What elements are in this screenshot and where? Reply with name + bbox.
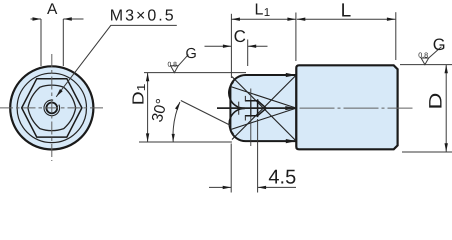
- dim D label: [426, 93, 446, 110]
- interface arrow middle: [285, 106, 296, 110]
- shallow taper line lower: [230, 108, 296, 130]
- svg-text:0.8: 0.8: [168, 62, 178, 69]
- hex chamfer arcs side view: [229, 82, 245, 134]
- svg-text:M3×0.5: M3×0.5: [110, 7, 176, 24]
- dim D1 top extension line: [144, 72, 246, 74]
- surface finish symbol right leg: [429, 47, 442, 58]
- hex section side view body: [230, 75, 296, 141]
- dim D line: [445, 65, 447, 152]
- svg-text:A: A: [47, 1, 58, 18]
- dim L1 line: [231, 18, 296, 20]
- axis leader line solid: [217, 107, 294, 109]
- dim D1 label: [131, 84, 149, 106]
- svg-text:0.8: 0.8: [418, 51, 428, 60]
- right extension line: [395, 12, 397, 60]
- dim D1 line: [147, 73, 149, 142]
- dim L line: [297, 18, 396, 20]
- dim 4.5 arrows: [209, 186, 231, 188]
- surface finish symbol left leg: [178, 55, 188, 66]
- thread hole lines side view: [245, 99, 258, 117]
- svg-text:D: D: [131, 91, 148, 105]
- dim D1 bottom extension line: [139, 141, 232, 143]
- svg-text:L: L: [255, 1, 264, 18]
- front view outer circle (cylinder D): [10, 66, 93, 149]
- svg-text:D: D: [426, 93, 446, 110]
- 30 deg label: [149, 97, 171, 124]
- X cross diagonal 2: [232, 75, 296, 140]
- dim D bottom extension line: [402, 151, 452, 153]
- svg-text:1: 1: [136, 84, 148, 92]
- dim A arrows and tails: [31, 18, 42, 20]
- shallow taper line upper: [230, 87, 296, 109]
- surface finish symbol left triangle: [171, 66, 179, 73]
- dim D top extension line: [400, 64, 452, 66]
- 30 deg arc: [173, 102, 180, 142]
- dim C right extension line: [247, 40, 249, 67]
- interface arrow top: [286, 73, 297, 77]
- svg-text:L: L: [341, 0, 352, 21]
- dim 4.5 right extension line: [257, 119, 259, 193]
- svg-text:4.5: 4.5: [268, 166, 296, 188]
- svg-text:G: G: [186, 46, 197, 62]
- hex socket hexagon: [22, 79, 82, 137]
- hidden socket ticks: [239, 96, 246, 121]
- front vertical centerline: [51, 54, 53, 161]
- interface arrow bottom: [286, 139, 297, 143]
- thread depth line: [250, 100, 252, 117]
- dim A extension lines: [41, 19, 63, 66]
- cylinder centerline: [300, 107, 413, 109]
- dim 4.5 left extension line: [230, 144, 232, 193]
- cylinder body (diameter D) side view: [296, 65, 397, 149]
- 30 deg slant line: [181, 101, 230, 126]
- svg-text:1: 1: [264, 7, 270, 19]
- thread major circle (M3) with gap: [44, 100, 60, 116]
- dim C arrows: [205, 45, 232, 47]
- surface finish symbol right triangle: [421, 58, 429, 65]
- hex chamfer wavy circle: [28, 85, 76, 130]
- svg-text:C: C: [234, 27, 246, 46]
- X cross diagonal 1: [232, 77, 296, 142]
- front view inner circle (D1 collar silhouette): [17, 73, 86, 142]
- middle extension line: [295, 13, 297, 62]
- front horizontal centerline: [0, 107, 103, 109]
- M3x0.5 leader line: [56, 25, 177, 96]
- thread minor circle: [46, 103, 57, 114]
- svg-text:G: G: [433, 36, 446, 54]
- shared left extension line (L1/C): [230, 14, 232, 78]
- drill point cone: [258, 101, 267, 116]
